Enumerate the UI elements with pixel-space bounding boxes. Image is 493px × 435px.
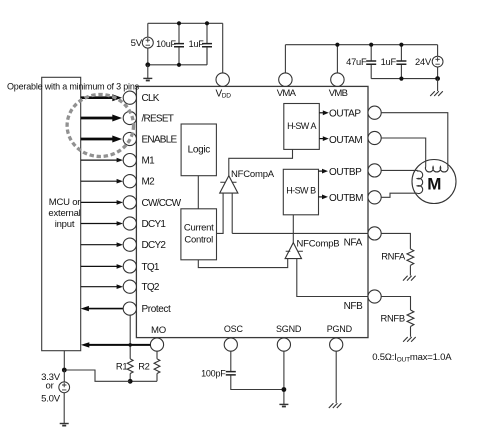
svg-text:or: or [45,381,54,392]
arrow H-SW A to OUTAM [319,135,362,146]
ground (SGND) [279,404,288,406]
svg-text:external: external [48,208,80,219]
svg-text:NFCompA: NFCompA [231,169,275,180]
pin DCY1 with input arrow [81,217,167,230]
capacitor C1 10uF [156,23,184,65]
resistor RNFB [380,310,413,327]
capacitor C3 47uF [346,45,376,79]
pin DCY2 with input arrow [81,238,167,251]
op-amp NFCompB [285,239,339,259]
5V source V2 [131,37,154,49]
ground (RNFB) hatched [403,337,416,342]
wire NFCompA output to H-SW A [229,149,293,175]
junction dots 5V rail [145,21,209,67]
pin VMB [329,73,348,99]
svg-text:/RESET: /RESET [142,113,174,124]
junction SGND/100pF [282,387,287,392]
svg-text:47uF: 47uF [346,57,367,67]
svg-text:ENABLE: ENABLE [142,134,178,145]
svg-text:CLK: CLK [142,93,160,104]
wire OUTAM to motor [381,138,426,167]
wire Logic to Current Control [197,176,199,209]
wire OSC to 100pF [230,351,232,371]
svg-text:10uF: 10uF [156,39,176,49]
pin NFA [344,227,382,249]
pin OSC [224,324,244,351]
svg-text:DD: DD [222,92,232,99]
junction 3.3V node [62,368,67,373]
pin VDD [216,73,232,99]
MCU or external input block [42,77,81,350]
wire NFB to NFCompB input [297,259,368,297]
wire Current Control to NFCompA input [217,193,224,233]
svg-text:5V: 5V [131,38,143,49]
wire 100pF to SGND net [231,375,284,389]
svg-text:Logic: Logic [188,145,211,156]
pin TQ1 with input arrow [81,260,160,273]
pin CLK with thick input arrow [81,91,160,104]
H-SW A block [284,104,320,150]
wire 5V top to rail [147,23,149,37]
svg-text:MCU or: MCU or [49,197,81,208]
svg-text:H-SWB: H-SWB [286,186,316,196]
pin OUTAM [368,131,381,144]
svg-text:OUTAP: OUTAP [329,108,361,119]
Current Control block [181,209,217,260]
wire Current Control to NFCompB input [198,259,287,268]
wire NFCompB output to H-SW B [292,215,294,243]
wire R1 R2 bottom link [130,374,157,382]
svg-text:RNFB: RNFB [380,312,404,323]
resistor R2 [138,359,160,374]
wire SGND to ground [283,351,285,404]
svg-text:24V: 24V [415,57,432,67]
ground (24V) hatched [430,79,443,96]
Logic block [181,124,216,176]
motor winding B (left coil) [417,171,422,194]
ground (3.3V) [60,424,69,426]
pin VMA [277,73,297,99]
wire PGND to ground [335,351,337,403]
svg-text:Operable with a minimum of 3 p: Operable with a minimum of 3 pins [7,82,140,92]
resistor RNFA [381,249,414,266]
wire MCU bottom to 3.3V node [63,351,65,370]
svg-text:R1: R1 [116,361,127,372]
svg-text:PGND: PGND [327,324,353,334]
pin OUTAP [368,106,381,119]
wire VMA drop [284,45,286,73]
svg-text:H-SWA: H-SWA [287,121,316,131]
ground (RNFA) hatched [403,276,416,281]
wire OUTBM to motor [381,193,417,197]
wire NFA to NFCompA input [232,193,368,233]
pin PGND [327,324,353,351]
wire Protect to R1 [129,315,131,359]
svg-text:input: input [55,219,75,230]
3.3V/5.0V source V3 [41,370,70,404]
wire 5V rail top [148,22,223,24]
pin CW/CCW with input arrow [81,196,182,209]
svg-text:DCY1: DCY1 [142,219,167,230]
svg-text:SGND: SGND [276,324,302,334]
svg-text:Protect: Protect [142,304,172,315]
svg-text:Control: Control [184,235,213,246]
arrow H-SW A to OUTAP [319,108,361,119]
wire VDD drop [222,23,224,73]
wire NFA to RNFA [381,233,410,249]
svg-text:TQ2: TQ2 [142,282,160,293]
wire NFB to RNFB [381,297,410,311]
ground (5V rail) [143,65,152,81]
H-SW B block [283,169,318,215]
wire 24V rail bottom [371,78,437,80]
pin ENABLE with thick input arrow [81,132,178,145]
svg-text:1uF: 1uF [189,39,205,49]
wire OUTBP to motor [381,169,417,172]
pin SGND [276,324,302,351]
pin M1 with input arrow [81,154,155,167]
pin MO [150,325,166,351]
svg-text:NFB: NFB [344,301,364,312]
svg-text:NFCompB: NFCompB [297,239,340,250]
wire MO to MCU with arrow [81,342,150,347]
arrow H-SW B to OUTBP [319,167,363,178]
wire RNFA to ground [409,265,411,275]
junction R1 bottom [128,379,133,384]
svg-text:VMA: VMA [277,88,297,99]
svg-text:DCY2: DCY2 [142,240,167,251]
motor M [412,160,456,204]
svg-text:M2: M2 [142,177,156,188]
wire RNFB to ground [410,327,412,337]
junction MO/R1 [128,343,132,347]
svg-text:NFA: NFA [344,237,363,248]
pin OUTBM [368,191,381,204]
24V supply rail top [285,44,437,46]
svg-text:0.5Ω:IOUTmax=1.0A: 0.5Ω:IOUTmax=1.0A [372,352,452,364]
svg-text:M1: M1 [142,156,156,167]
svg-text:100pF: 100pF [201,368,226,378]
resistor R1 [116,359,133,374]
annotation: Operable with a minimum of 3 pins [7,82,140,92]
arrow H-SW B to OUTBM [319,193,364,204]
pin /RESET with thick input arrow [81,111,174,124]
svg-text:R2: R2 [138,361,149,372]
svg-text:OSC: OSC [224,324,244,334]
24V source V1 [415,45,443,79]
svg-text:TQ1: TQ1 [142,262,160,273]
ground (PGND) hatched [329,403,342,408]
svg-text:VMB: VMB [329,88,348,99]
capacitor C5 100pF [201,368,236,378]
pin Protect with output arrow to MCU [81,302,171,315]
svg-text:OUTBP: OUTBP [329,167,362,178]
junction dots 24V rail [335,43,440,81]
motor winding A (top coil) [425,167,448,172]
pin M2 with input arrow [81,175,155,188]
svg-text:RNFA: RNFA [381,251,406,262]
wire OUTAP to motor [381,113,448,167]
svg-text:5.0V: 5.0V [41,393,61,404]
dashed highlight ellipse around CLK /RESET ENABLE [67,95,133,157]
IC U1 outline [136,86,368,337]
svg-text:1uF: 1uF [381,57,397,67]
svg-text:Current: Current [184,223,214,234]
wire MO to R2 [156,351,158,359]
wire 5V rail bottom [148,47,207,65]
svg-text:MO: MO [151,325,166,336]
wire VMB drop [336,45,338,73]
pin OUTBP [368,164,381,177]
pin TQ2 with input arrow [81,280,160,293]
capacitor C4 1uF [381,45,407,79]
svg-text:M: M [427,174,441,193]
op-amp NFCompA [220,169,275,193]
pin NFB [344,290,382,312]
capacitor C2 1uF [189,23,212,65]
svg-text:CW/CCW: CW/CCW [142,198,182,209]
wire bottom link to 3.3V node [64,370,130,381]
svg-text:OUTBM: OUTBM [329,193,363,204]
wire 3.3V source to ground [63,393,65,424]
note 0.5ohm Iout max [372,352,452,364]
svg-text:OUTAM: OUTAM [329,135,362,146]
